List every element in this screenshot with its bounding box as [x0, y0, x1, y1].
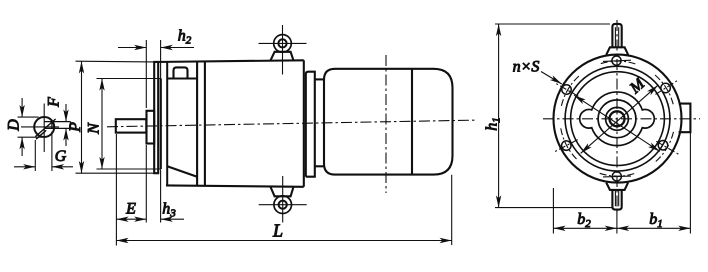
- svg-text:G: G: [55, 148, 67, 165]
- svg-text:b1: b1: [649, 211, 663, 230]
- bolt hole lower-right radial dash line: [656, 141, 678, 154]
- shaft section circle: [34, 117, 54, 137]
- dim N extension bottom: [97, 168, 161, 170]
- bolt hole S lower-right: [658, 140, 668, 150]
- bolt hole S upper-right: [661, 83, 671, 93]
- fan cover seam line: [411, 69, 413, 175]
- keyway chord line: [51, 122, 53, 129]
- flange plate: [154, 62, 158, 173]
- dim h2 arrow left: [118, 47, 146, 49]
- dim G arrow right: [52, 166, 73, 168]
- dim M diagonal line (lower-left to upper-right): [581, 85, 658, 153]
- dim E extension left: [115, 134, 117, 246]
- keyway slot top line: [44, 121, 70, 123]
- dim F arrow top: [65, 104, 67, 122]
- flange spigot face line: [160, 79, 162, 170]
- junction ring line 1: [196, 62, 198, 186]
- dim L line: [116, 240, 451, 242]
- svg-text:P: P: [67, 122, 84, 133]
- section hatch line 2: [36, 130, 46, 139]
- terminal bump right side: [679, 104, 691, 133]
- dim h3 extension: [160, 170, 162, 223]
- end view vertical centerline: [616, 20, 618, 213]
- shaft section horizontal centerline: [21, 126, 59, 128]
- svg-text:M: M: [626, 74, 649, 97]
- flange spigot circle: [571, 72, 665, 166]
- flange outer circle: [554, 55, 682, 183]
- bolt circle dash arc at upper-left hole: [561, 76, 579, 107]
- bolt hole S lower-left: [562, 141, 572, 151]
- dim D extension bottom: [18, 136, 43, 138]
- dim h2 extension right: [160, 40, 162, 79]
- svg-text:F: F: [46, 97, 63, 108]
- gearbox bottom diagonal rib: [167, 166, 197, 177]
- wire: main horizontal centerline of side view: [107, 120, 477, 127]
- motor body right edge: [303, 60, 305, 187]
- keyway slot end line: [70, 122, 72, 129]
- motor vertical centerline: [385, 55, 387, 193]
- dim P extension bottom: [76, 172, 154, 174]
- bottom clamp bolt horizontal line: [603, 175, 631, 178]
- top lug vertical centerline: [282, 25, 284, 75]
- top stud inner line 1: [614, 27, 616, 47]
- dim diagonal line (upper-left to lower-right): [574, 95, 660, 151]
- svg-text:b2: b2: [577, 211, 591, 230]
- bolt hole S upper-left: [562, 85, 572, 95]
- top clamp bolt horizontal line: [603, 60, 631, 61]
- shaft collar: [147, 111, 155, 144]
- top stud nut trapezoid: [606, 47, 628, 54]
- dim L extension right: [451, 175, 453, 245]
- dim E extension mid: [145, 145, 147, 223]
- hub circle: [598, 100, 636, 138]
- top lug eye inner circle: [278, 39, 286, 47]
- dim G arrow left: [14, 166, 35, 168]
- lobed hub contour: [580, 92, 655, 146]
- svg-text:h2: h2: [178, 27, 192, 46]
- dim h2 arrow right: [161, 47, 194, 49]
- gearbox housing front line: [166, 62, 168, 186]
- dim b1 line: [617, 227, 691, 229]
- bolt circle dash arc at bottom clamp bolt: [600, 173, 636, 176]
- top stud inner line 2: [618, 27, 620, 47]
- bottom stud inner line 1: [614, 190, 616, 206]
- dim h2 extension left: [145, 40, 147, 108]
- svg-text:E: E: [125, 201, 136, 218]
- top clamp bolt circle: [612, 56, 621, 65]
- keyway slot bottom line: [44, 127, 70, 129]
- dim P extension top: [76, 60, 154, 63]
- dim G extension left: [34, 140, 36, 171]
- dim D arrow bottom: [21, 137, 23, 156]
- gearbox top plug bump: [174, 67, 188, 78]
- dim b1 extension right: [689, 132, 691, 233]
- dim N line: [101, 79, 103, 170]
- nxS leader arrow: [541, 72, 562, 85]
- top stud: [612, 24, 621, 47]
- dim D arrow top: [21, 98, 23, 117]
- dim G extension right: [51, 132, 53, 172]
- shaft section vertical centerline: [43, 104, 45, 153]
- neck bottom line: [315, 165, 325, 167]
- gearbox inner step line: [167, 77, 197, 79]
- dim F arrow bottom: [65, 128, 67, 146]
- bolt hole upper-right radial dash line: [656, 81, 678, 95]
- dim b2 line: [553, 227, 617, 229]
- bottom lug eye inner circle: [279, 201, 287, 209]
- end view horizontal centerline: [543, 118, 700, 120]
- bolt circle dash arc at upper-right hole: [654, 74, 673, 104]
- dim h3 arrow: [161, 218, 184, 220]
- bolt hole upper-left radial dash line: [556, 84, 578, 97]
- dim N extension top: [97, 78, 161, 80]
- dim E line: [116, 218, 146, 220]
- dim D extension top: [18, 116, 39, 118]
- top lug horizontal centerline: [259, 42, 307, 44]
- gearbox/motor bottom line: [166, 185, 304, 186]
- bottom mounting lug: [270, 187, 293, 197]
- neck top line: [315, 78, 325, 80]
- bolt circle dash arc at top clamp bolt: [600, 61, 636, 64]
- dim h1 extension bottom: [495, 207, 613, 209]
- bottom clamp bolt circle: [612, 172, 621, 181]
- bolt hole lower-left radial dash line: [555, 140, 578, 152]
- svg-text:D: D: [6, 119, 23, 132]
- bolt circle dash arc at lower-left hole: [561, 128, 578, 160]
- dim h1 line: [498, 24, 500, 208]
- dim P line: [81, 61, 83, 173]
- shaft hole counterbore circle: [606, 107, 629, 130]
- dim b2 extension left: [552, 188, 554, 234]
- svg-text:h3: h3: [162, 201, 176, 220]
- svg-text:L: L: [272, 221, 283, 241]
- rear step ring: [306, 72, 315, 177]
- junction ring line 2: [204, 61, 206, 186]
- shaft hole circle: [610, 111, 625, 126]
- fan cover outline: [324, 69, 453, 175]
- svg-text:n×S: n×S: [513, 59, 540, 76]
- bolt circle dash arc at lower-right hole: [656, 131, 674, 162]
- bottom stud nut trapezoid: [606, 183, 628, 190]
- dim h1 extension top: [495, 23, 610, 25]
- top lug eye outer circle: [274, 35, 292, 53]
- shaft (output shaft side view): [116, 119, 147, 132]
- bottom lug eye outer circle: [274, 196, 292, 214]
- flange ring circle: [565, 66, 670, 171]
- section hatch line 1: [35, 119, 55, 137]
- dim b extension middle (stud axis): [616, 210, 618, 234]
- gearbox/motor top line: [154, 60, 304, 62]
- bottom stud inner line 2: [618, 190, 620, 206]
- svg-text:N: N: [86, 122, 103, 135]
- svg-text:h1: h1: [484, 117, 503, 131]
- bottom stud: [612, 190, 621, 210]
- bottom lug vertical centerline: [282, 176, 284, 223]
- bottom lug horizontal centerline: [259, 204, 307, 206]
- top mounting lug: [270, 52, 293, 61]
